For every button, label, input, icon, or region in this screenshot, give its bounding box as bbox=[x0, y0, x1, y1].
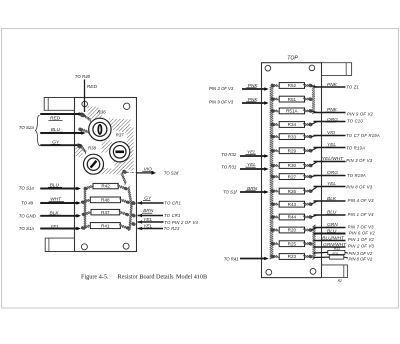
svg-text:TO R40: TO R40 bbox=[75, 74, 91, 79]
svg-text:TO R32: TO R32 bbox=[221, 152, 237, 157]
svg-text:R38: R38 bbox=[88, 146, 97, 151]
svg-text:PIN 3 OF V2: PIN 3 OF V2 bbox=[349, 251, 373, 256]
svg-text:R34: R34 bbox=[288, 122, 297, 127]
svg-text:PIN 2 OF V3: PIN 2 OF V3 bbox=[348, 244, 375, 249]
svg-text:PIN 8 OF V2: PIN 8 OF V2 bbox=[349, 256, 373, 261]
svg-text:PIN 9 OF V3: PIN 9 OF V3 bbox=[209, 100, 234, 105]
svg-text:TO R19A: TO R19A bbox=[347, 173, 366, 178]
svg-text:R51: R51 bbox=[288, 97, 297, 102]
svg-text:PIN 9 OF V2: PIN 9 OF V2 bbox=[347, 111, 374, 116]
svg-text:R2: R2 bbox=[338, 279, 342, 283]
svg-text:TO CR1: TO CR1 bbox=[164, 213, 181, 218]
svg-text:R27: R27 bbox=[288, 174, 297, 179]
svg-text:R20: R20 bbox=[288, 228, 297, 233]
svg-text:R41: R41 bbox=[101, 224, 110, 229]
svg-text:R37: R37 bbox=[116, 132, 125, 137]
svg-text:R29: R29 bbox=[288, 148, 297, 153]
svg-text:TO GND: TO GND bbox=[19, 213, 37, 218]
svg-text:TO R41: TO R41 bbox=[224, 256, 240, 261]
svg-text:Figure 4-5.: Figure 4-5. bbox=[81, 274, 109, 281]
svg-text:Resistor Board Details: Resistor Board Details bbox=[118, 274, 175, 281]
svg-text:R23: R23 bbox=[288, 254, 297, 259]
svg-text:R26: R26 bbox=[288, 189, 297, 194]
svg-text:PIN 3 OF V3: PIN 3 OF V3 bbox=[209, 86, 234, 91]
svg-text:R42: R42 bbox=[101, 184, 110, 189]
svg-text:R36: R36 bbox=[97, 109, 106, 114]
svg-text:TO S1a: TO S1a bbox=[19, 226, 35, 231]
svg-text:Model 410B: Model 410B bbox=[176, 274, 207, 281]
svg-text:PIN 1 OF V2: PIN 1 OF V2 bbox=[348, 237, 375, 242]
svg-text:R21: R21 bbox=[333, 252, 339, 256]
svg-text:R52: R52 bbox=[288, 83, 297, 88]
svg-text:R51A: R51A bbox=[286, 109, 298, 114]
svg-text:PIN 8 OF V3: PIN 8 OF V3 bbox=[346, 185, 373, 190]
svg-text:TO 49: TO 49 bbox=[21, 200, 34, 205]
svg-text:PIN 3 OF V3: PIN 3 OF V3 bbox=[346, 158, 373, 163]
svg-text:PIN 6 OF V2: PIN 6 OF V2 bbox=[349, 230, 376, 235]
svg-text:TO R23: TO R23 bbox=[164, 226, 180, 231]
svg-text:TO S2d: TO S2d bbox=[164, 170, 179, 175]
svg-text:R43: R43 bbox=[288, 202, 297, 207]
svg-text:RED: RED bbox=[87, 84, 98, 90]
svg-text:PIN 4 OF V3: PIN 4 OF V3 bbox=[348, 198, 375, 203]
svg-text:PIN 1 OF V4: PIN 1 OF V4 bbox=[348, 212, 375, 217]
svg-text:TO S1a: TO S1a bbox=[19, 185, 35, 190]
svg-text:R25: R25 bbox=[288, 241, 297, 246]
svg-text:TO PIN 2 OF V4: TO PIN 2 OF V4 bbox=[164, 220, 198, 225]
svg-text:TO S2a: TO S2a bbox=[19, 125, 35, 130]
svg-text:TOP: TOP bbox=[287, 56, 298, 62]
svg-text:TO R31: TO R31 bbox=[221, 164, 237, 169]
svg-text:PIN 7 OF V3: PIN 7 OF V3 bbox=[348, 225, 375, 230]
svg-text:R48: R48 bbox=[101, 198, 110, 203]
svg-text:TO C10: TO C10 bbox=[347, 118, 363, 123]
svg-text:R33: R33 bbox=[288, 134, 297, 139]
svg-text:R30: R30 bbox=[288, 163, 297, 168]
svg-text:TO R19A: TO R19A bbox=[346, 146, 365, 151]
svg-text:R44: R44 bbox=[288, 215, 297, 220]
svg-text:TO C7 OF R19A: TO C7 OF R19A bbox=[346, 133, 380, 138]
svg-text:TO S1f: TO S1f bbox=[223, 189, 237, 194]
svg-text:TO CR1: TO CR1 bbox=[164, 201, 181, 206]
svg-text:TO Z1: TO Z1 bbox=[346, 85, 359, 90]
svg-text:R47: R47 bbox=[101, 210, 110, 215]
svg-text:R22: R22 bbox=[334, 247, 340, 251]
